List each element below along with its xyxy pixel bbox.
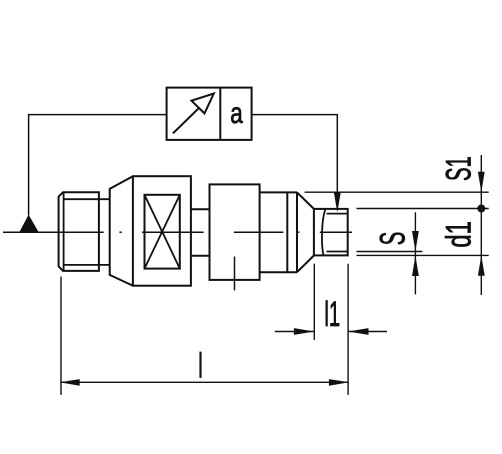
threaded spigot outline (left, chamfered): [59, 192, 99, 271]
wire from box to left measuring point: [29, 115, 167, 216]
centerline axis segment 2: [142, 231, 204, 233]
vertical center tick of body section: [234, 257, 236, 291]
extension line S1 top: [305, 191, 489, 193]
d1 arrowhead up: [478, 255, 485, 275]
centerline dot 1: [119, 231, 121, 233]
cylindrical body section: [210, 184, 260, 280]
indicator box divider: [219, 88, 221, 140]
wire arrowhead onto probe tip: [334, 192, 341, 213]
step section top line: [260, 191, 297, 193]
hex body: [133, 176, 191, 286]
neck top line: [191, 208, 210, 210]
tip thread runout curve: [322, 209, 326, 255]
S1 d1 dimension vertical line: [480, 155, 482, 295]
thread chamfer vertical line: [63, 192, 65, 271]
l dimension line: [61, 381, 348, 383]
indicator arrow shaft: [173, 107, 201, 134]
l1 arrowhead left-pointing: [348, 328, 368, 335]
neck bottom line: [191, 255, 210, 257]
l arrowhead left: [59, 379, 79, 386]
cone top slant: [297, 192, 314, 209]
l extension line left: [60, 277, 62, 395]
l1 dimension line left part: [275, 331, 315, 333]
extension line S top (thread root): [357, 251, 423, 253]
shared dimension dot: [477, 205, 485, 213]
S dimension vertical line: [414, 212, 416, 294]
S1 arrowhead down: [478, 172, 485, 192]
indicator box U1: [167, 88, 252, 140]
thread root line bottom: [64, 264, 110, 266]
svg-text:S1: S1: [440, 156, 479, 181]
centerline axis segment 4: [320, 231, 352, 233]
step inner vertical line: [286, 192, 288, 272]
hex chamfer trapezoid: [110, 176, 133, 286]
svg-text:l: l: [198, 347, 203, 386]
svg-text:a: a: [230, 96, 243, 130]
centerline dot 2: [297, 231, 299, 233]
l arrowhead right: [329, 379, 349, 386]
wire from box to probe tip: [252, 115, 338, 193]
cone bottom slant: [297, 256, 314, 273]
measuring point triangle: [19, 215, 39, 233]
valve inner rectangle: [145, 195, 180, 269]
centerline axis segment 3: [234, 231, 284, 233]
valve diagonal 1: [145, 195, 180, 269]
valve diagonal 2: [145, 195, 180, 269]
l1 extension line left: [313, 264, 315, 340]
step right edge: [296, 192, 298, 272]
centerline axis segment 1: [3, 231, 104, 233]
tip thread inner line bottom: [327, 251, 348, 253]
probe tip outline: [314, 209, 348, 256]
svg-text:d1: d1: [440, 221, 479, 247]
l1 dimension line right part: [348, 331, 387, 333]
indicator open arrowhead: [192, 94, 214, 114]
S arrowhead up: [412, 256, 419, 276]
step section bottom line: [260, 271, 297, 273]
svg-text:S: S: [374, 232, 413, 246]
l1 arrowhead right-pointing: [294, 328, 314, 335]
tip thread inner line top: [327, 213, 348, 215]
extension line d1 bottom: [357, 254, 489, 256]
extension line d1 top: [357, 208, 489, 210]
S arrowhead down: [412, 231, 419, 251]
thread root line top: [64, 198, 110, 200]
l1 extension line right (shared with l): [347, 264, 349, 395]
svg-text:l1: l1: [324, 296, 340, 335]
